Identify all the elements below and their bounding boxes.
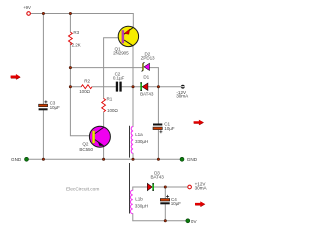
svg-text:L1a: L1a [135, 132, 143, 137]
svg-text:30mA: 30mA [176, 94, 189, 99]
svg-text:10µF: 10µF [50, 105, 60, 110]
svg-text:Q2: Q2 [82, 141, 88, 146]
svg-text:100Ω: 100Ω [107, 108, 118, 113]
svg-text:GND: GND [187, 157, 198, 162]
svg-text:ZPD13: ZPD13 [141, 56, 155, 61]
svg-text:BC550: BC550 [79, 147, 93, 152]
svg-text:10µF: 10µF [164, 126, 174, 131]
svg-text:100Ω: 100Ω [79, 89, 90, 94]
svg-text:330µH: 330µH [135, 139, 148, 144]
svg-text:+9V: +9V [23, 5, 31, 10]
svg-text:R2: R2 [84, 79, 90, 84]
svg-text:GND: GND [11, 157, 22, 162]
svg-text:R1: R1 [107, 97, 113, 102]
svg-text:BAT43: BAT43 [151, 174, 165, 179]
svg-text:2N2905: 2N2905 [113, 51, 129, 56]
svg-text:30mA: 30mA [195, 186, 208, 191]
svg-text:10µF: 10µF [171, 201, 181, 206]
svg-text:0V: 0V [191, 219, 198, 224]
svg-text:330µH: 330µH [135, 204, 148, 209]
svg-text:BAT43: BAT43 [140, 92, 154, 97]
svg-text:L1b: L1b [135, 196, 143, 201]
svg-text:D1: D1 [143, 75, 149, 80]
svg-text:R3: R3 [73, 30, 79, 35]
svg-text:ElecCircuit.com: ElecCircuit.com [66, 186, 99, 192]
svg-text:0.1µF: 0.1µF [113, 76, 125, 81]
svg-text:2.2K: 2.2K [72, 43, 82, 48]
